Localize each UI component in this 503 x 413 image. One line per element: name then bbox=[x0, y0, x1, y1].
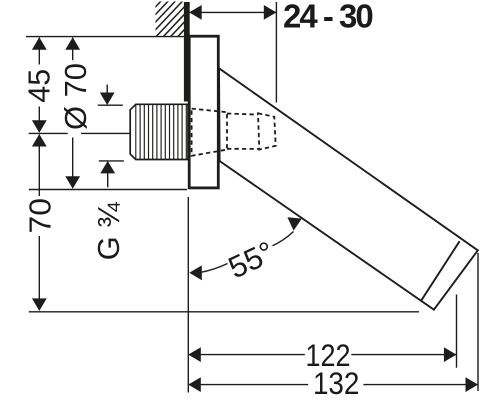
extension line flange bottom level bbox=[29, 189, 187, 191]
escutcheon flange bbox=[189, 36, 218, 188]
extension line top (flange top level) bbox=[26, 36, 188, 38]
shower arm body bbox=[219, 68, 478, 309]
extension line 24-30 right bbox=[275, 2, 277, 103]
dimension 24-30 line bbox=[190, 11, 277, 13]
dimension D70 line bbox=[72, 38, 74, 189]
extension line below flange to bottom dims bbox=[187, 197, 189, 393]
55 degree leader arc right bbox=[273, 232, 294, 246]
hidden connector (dashed), large tapered section bbox=[192, 109, 227, 156]
dimension 70 arrows bbox=[32, 134, 47, 147]
dimension D70 arrows bbox=[65, 37, 80, 50]
hidden connector mid section top bbox=[227, 114, 258, 115]
svg-text:24 - 30: 24 - 30 bbox=[283, 0, 372, 34]
spout end separation line bbox=[421, 241, 460, 301]
dimension 45 line bbox=[38, 38, 40, 133]
dimension 24-30 arrows bbox=[189, 5, 202, 20]
nut chamfer ridge bbox=[135, 104, 137, 159]
extension line nut axis bbox=[29, 132, 130, 134]
svg-text:Ø 70: Ø 70 bbox=[59, 63, 93, 130]
dimension 45 arrows bbox=[32, 37, 47, 50]
svg-text:132: 132 bbox=[313, 365, 360, 401]
nut thread arrow up bbox=[107, 173, 109, 187]
nut knurl stripes bbox=[140, 105, 186, 159]
dimension 122 line bbox=[189, 354, 457, 356]
dimension 132 arrows bbox=[188, 377, 201, 392]
55 degree leader arc left bbox=[202, 264, 228, 273]
dimension 132 line bbox=[189, 384, 478, 386]
extension line 122 right bbox=[456, 295, 458, 368]
wall surface bar bbox=[184, 2, 190, 102]
dimension 122 arrows bbox=[188, 347, 201, 362]
hidden connector small section bbox=[258, 113, 276, 149]
55 degree leader top arrow bbox=[287, 217, 301, 230]
dimension 70 line (left lower) bbox=[38, 135, 40, 310]
nut thread arrow down bbox=[106, 85, 108, 94]
nut thread extension line bottom bbox=[99, 160, 124, 162]
svg-text:70: 70 bbox=[24, 198, 58, 234]
nut thread extension line top bbox=[98, 104, 123, 106]
wall hatch bbox=[126, 0, 220, 38]
svg-text:45: 45 bbox=[22, 69, 56, 103]
extension line 132 right bbox=[477, 253, 479, 391]
hidden connector mid section bottom bbox=[227, 148, 259, 150]
extension line bottom (spout outlet level) bbox=[29, 311, 419, 313]
svg-text:G ¾: G ¾ bbox=[92, 202, 126, 261]
knurled nut G3/4 bbox=[130, 104, 188, 159]
55 degree leader left arrow bbox=[189, 265, 202, 280]
